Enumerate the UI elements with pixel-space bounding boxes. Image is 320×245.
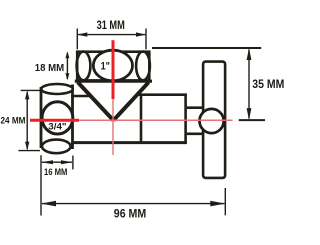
valve yoke V right arm: [113, 82, 148, 120]
handle bar: [203, 62, 225, 178]
dimension 96 MM arrow line: [42, 203, 224, 205]
centerline vertical thin red: [112, 99, 114, 155]
body top line left segment: [71, 95, 91, 98]
left nut center facet circle: [42, 102, 73, 134]
dimension 16 MM right extension line: [72, 156, 74, 170]
dimension 35 MM double arrow: [248, 50, 250, 119]
dimension 18 MM double arrow: [66, 53, 68, 79]
dimension 31 MM extension lines: [77, 29, 146, 50]
dimension 35 MM bottom tick: [239, 119, 265, 121]
dimension 16 MM / 96 MM shared left extension line: [40, 155, 42, 215]
top nut bottom flange line: [75, 80, 152, 83]
top nut outline: [77, 52, 149, 81]
dimension 96 MM right extension line: [224, 188, 226, 215]
centerline vertical thick red: [112, 40, 115, 99]
left nut left edge: [40, 87, 43, 148]
svg-text:1": 1": [101, 61, 110, 73]
dimension 24 MM double arrow: [26, 92, 28, 149]
svg-text:35 MM: 35 MM: [252, 77, 284, 91]
stem connector bottom line: [187, 133, 204, 136]
body right edge: [184, 94, 187, 144]
top nut left facet ellipse: [77, 52, 91, 81]
valve yoke V left arm: [78, 82, 114, 120]
left nut top ellipse: [41, 84, 73, 94]
centerline horizontal thick red: [30, 119, 79, 122]
top nut center facet ellipse: [93, 50, 132, 81]
dimension 35 MM top reference line: [152, 47, 261, 49]
svg-text:16 MM: 16 MM: [44, 167, 67, 177]
left nut bottom ellipse: [42, 140, 71, 154]
body bottom line: [71, 141, 187, 144]
svg-text:31 MM: 31 MM: [97, 20, 125, 32]
dimension 24 MM top tick: [21, 89, 41, 91]
centerline horizontal thin red: [79, 119, 233, 121]
dimension 24 MM bottom tick: [18, 150, 40, 152]
svg-text:24 MM: 24 MM: [1, 116, 26, 126]
left nut right edge: [71, 85, 74, 150]
svg-text:3/4": 3/4": [48, 121, 66, 131]
dimension 16 MM double arrow: [42, 161, 72, 163]
svg-text:96 MM: 96 MM: [114, 206, 146, 220]
top nut right facet ellipse: [136, 52, 150, 81]
body divider line: [140, 95, 143, 143]
svg-text:18 MM: 18 MM: [35, 63, 64, 74]
dimension 31 MM arrow line: [78, 34, 145, 36]
body top line right segment: [137, 93, 187, 96]
stem knob circle: [200, 109, 224, 133]
stem connector top line: [187, 106, 204, 109]
